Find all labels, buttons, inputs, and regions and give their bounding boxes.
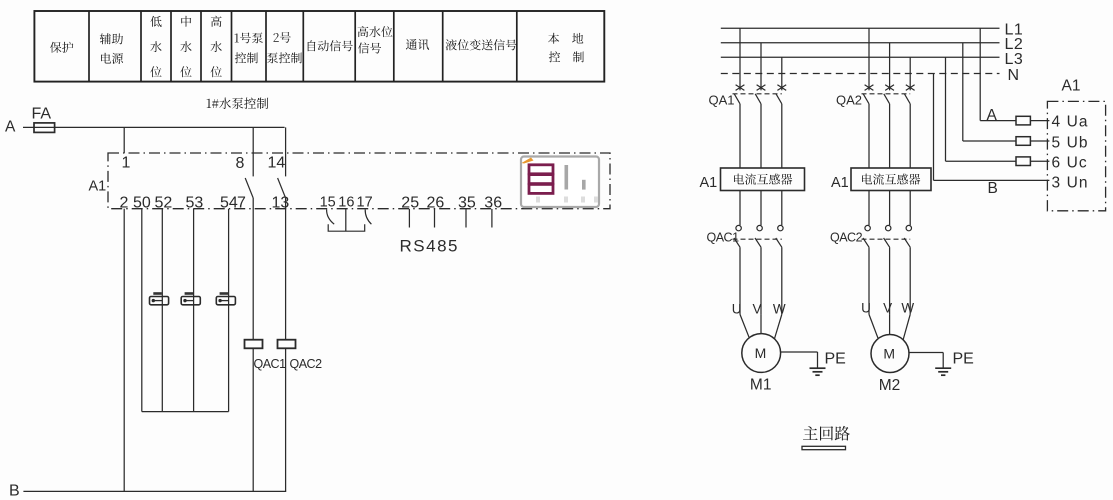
svg-text:QA2: QA2	[836, 93, 862, 108]
svg-text:1: 1	[122, 155, 131, 172]
svg-text:3 Un: 3 Un	[1052, 174, 1089, 191]
svg-text:A: A	[5, 119, 16, 136]
svg-text:PE: PE	[953, 351, 974, 368]
svg-text:PE: PE	[825, 351, 846, 368]
svg-text:RS485: RS485	[400, 237, 459, 256]
svg-text:A: A	[987, 107, 998, 124]
svg-text:A1: A1	[831, 175, 849, 191]
svg-text:M1: M1	[750, 377, 772, 394]
svg-text:L3: L3	[1005, 51, 1024, 68]
svg-text:QA1: QA1	[709, 93, 735, 108]
svg-text:A1: A1	[89, 179, 107, 195]
svg-text:M: M	[883, 346, 895, 362]
svg-text:QAC2: QAC2	[830, 231, 863, 245]
svg-text:36: 36	[484, 195, 502, 212]
svg-text:B: B	[9, 483, 20, 500]
svg-text:A1: A1	[1062, 78, 1081, 95]
svg-text:8: 8	[236, 155, 245, 172]
svg-text:16: 16	[338, 195, 354, 211]
svg-text:25: 25	[401, 195, 419, 212]
svg-text:M: M	[755, 345, 767, 361]
svg-text:FA: FA	[32, 106, 52, 123]
svg-text:53: 53	[186, 195, 204, 212]
svg-text:54: 54	[220, 195, 238, 212]
svg-text:4 Ua: 4 Ua	[1052, 114, 1089, 131]
svg-text:50: 50	[133, 195, 151, 212]
svg-text:W: W	[773, 302, 786, 317]
svg-text:6 Uc: 6 Uc	[1052, 154, 1088, 171]
svg-text:52: 52	[155, 195, 173, 212]
svg-text:V: V	[752, 302, 761, 317]
svg-text:N: N	[1008, 67, 1020, 84]
svg-text:QAC1: QAC1	[254, 357, 287, 371]
svg-text:QAC1: QAC1	[707, 231, 740, 245]
svg-text:U: U	[861, 301, 871, 316]
svg-text:14: 14	[268, 155, 286, 172]
svg-text:17: 17	[357, 195, 373, 211]
svg-text:QAC2: QAC2	[290, 357, 323, 371]
svg-text:W: W	[901, 301, 914, 316]
svg-text:V: V	[883, 301, 892, 316]
svg-text:26: 26	[427, 195, 445, 212]
svg-text:B: B	[988, 180, 998, 197]
svg-text:7: 7	[237, 195, 246, 212]
svg-text:U: U	[732, 302, 742, 317]
svg-text:M2: M2	[879, 377, 901, 394]
svg-text:5 Ub: 5 Ub	[1052, 134, 1089, 151]
svg-text:13: 13	[272, 195, 290, 212]
svg-text:A1: A1	[700, 175, 718, 191]
svg-text:35: 35	[458, 195, 476, 212]
svg-text:15: 15	[320, 195, 336, 211]
